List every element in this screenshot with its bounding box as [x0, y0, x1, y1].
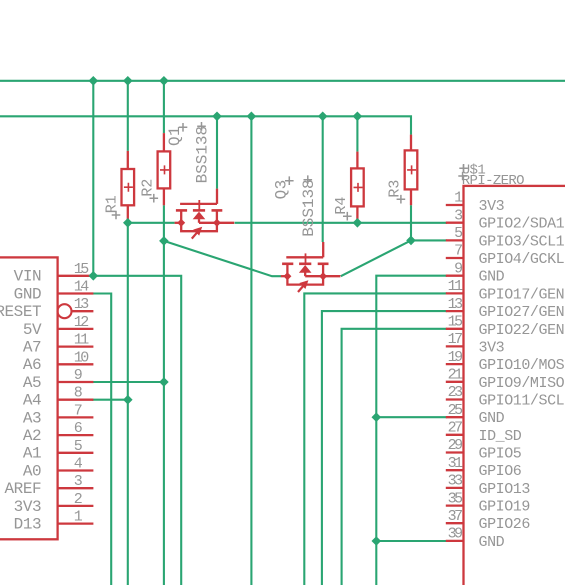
pin lead Arduino 2 — [58, 505, 94, 507]
svg-text:R4: R4 — [333, 197, 350, 215]
pin lead Arduino 8 — [58, 399, 94, 401]
wire SCL1 to RPi pin5 — [411, 239, 447, 241]
svg-text:GND: GND — [14, 285, 42, 303]
pin 13 RESET lead with inversion circle — [58, 304, 72, 318]
svg-text:A5: A5 — [23, 374, 41, 392]
wire 3V3 to R4 top — [356, 116, 358, 151]
svg-text:GPIO2/SDA1: GPIO2/SDA1 — [479, 216, 565, 233]
transistor Q3 BSS138 — [281, 242, 341, 292]
junction 3V3/Q1 gate — [212, 112, 222, 122]
junction VIN/R1 — [123, 76, 133, 86]
svg-text:Q1: Q1 — [166, 126, 184, 146]
wire GND from RPi pin9 — [376, 276, 447, 585]
svg-text:A0: A0 — [23, 462, 41, 480]
svg-text:GPIO6: GPIO6 — [479, 463, 522, 480]
svg-text:D13: D13 — [14, 516, 42, 534]
junction VIN/pin15 col — [89, 76, 99, 86]
junction GND pin39 — [372, 536, 382, 546]
origin cross Q1 label — [179, 123, 188, 132]
wire GND to RPi pin39 — [376, 540, 447, 542]
svg-text:RPI-ZERO: RPI-ZERO — [462, 173, 524, 189]
wire GND from pin14 — [92, 294, 111, 585]
svg-text:3V3: 3V3 — [14, 498, 42, 516]
pin lead Arduino 7 — [58, 416, 94, 418]
svg-text:3V3: 3V3 — [479, 339, 505, 356]
svg-text:GND: GND — [479, 534, 505, 551]
svg-text:BSS138: BSS138 — [300, 179, 318, 236]
pin lead RPi 27 — [446, 434, 464, 436]
pin lead RPi 33 — [446, 487, 464, 489]
pin lead RPi 15 — [446, 328, 464, 330]
svg-text:GPIO5: GPIO5 — [479, 446, 522, 463]
pin lead RPi 29 — [446, 451, 464, 453]
resistor R1 — [127, 151, 129, 169]
wire VIN to R2 top — [163, 81, 165, 133]
junction 3V3/Q3 gate — [318, 112, 328, 122]
junction A5 col — [159, 377, 169, 387]
svg-text:A2: A2 — [23, 427, 41, 445]
svg-text:GPIO17/GEN0: GPIO17/GEN0 — [479, 286, 565, 303]
resistor R3 — [410, 135, 412, 151]
pin lead RPi 35 — [446, 504, 464, 506]
svg-text:A6: A6 — [23, 356, 41, 374]
svg-text:GPIO3/SCL1: GPIO3/SCL1 — [479, 233, 565, 250]
pin lead Arduino 1 — [58, 522, 94, 524]
junction 3V3 branch — [247, 112, 257, 122]
svg-text:R2: R2 — [140, 179, 157, 197]
wire VIN to pin15 column — [92, 81, 94, 276]
wire GND to RPi pin25 — [376, 416, 447, 418]
pin lead Arduino 14 — [58, 292, 94, 294]
origin cross U$1 — [459, 164, 468, 173]
svg-text:GPIO22/GEN3: GPIO22/GEN3 — [479, 322, 565, 339]
pin lead Arduino 4 — [58, 469, 94, 471]
wire GPIO17 from RPi pin11 — [304, 293, 447, 585]
pin lead RPi 9 — [446, 275, 464, 277]
wire SDA left segment — [128, 222, 175, 224]
pin lead RPi 31 — [446, 469, 464, 471]
pin lead Arduino 11 — [58, 345, 94, 347]
origin cross Q3 label — [285, 176, 294, 185]
wire diagonal Q3 drain to SCL1 node — [341, 240, 411, 276]
origin cross BSS138 label — [197, 122, 206, 131]
pin lead RPi 17 — [446, 345, 464, 347]
pin lead RPi 11 — [446, 292, 464, 294]
wire 3V3 to Q1 gate — [216, 116, 218, 188]
pin lead Arduino 10 — [58, 363, 94, 365]
transistor Q1 BSS138 — [175, 189, 235, 239]
junction R3 bottom SCL1 — [406, 236, 416, 246]
resistor R4 — [356, 152, 358, 169]
wire A4 from pin8 — [92, 399, 128, 401]
svg-text:A4: A4 — [23, 392, 41, 410]
origin cross R3 — [397, 195, 406, 204]
svg-text:GND: GND — [479, 269, 505, 286]
svg-text:12: 12 — [74, 314, 89, 331]
svg-text:29: 29 — [448, 437, 463, 454]
svg-text:Q3: Q3 — [272, 179, 290, 199]
svg-text:27: 27 — [448, 420, 463, 437]
svg-text:GPIO13: GPIO13 — [479, 481, 531, 498]
wire A5 from pin9 — [92, 381, 164, 383]
wire SDA right segment to RPi pin3 — [235, 222, 447, 224]
svg-text:39: 39 — [448, 526, 463, 543]
svg-text:AREF: AREF — [5, 480, 42, 498]
pin lead RPi 7 — [446, 257, 464, 259]
wire 3V3 rail — [0, 116, 411, 134]
junction A4 col — [123, 395, 133, 405]
pin lead RPi 39 — [446, 540, 464, 542]
svg-text:R3: R3 — [387, 180, 404, 198]
svg-text:GND: GND — [479, 410, 505, 427]
junction R2 bottom SCL — [159, 236, 169, 246]
pin lead Arduino 15 — [58, 275, 94, 277]
wire SDA column down from R1 — [127, 223, 129, 585]
svg-text:GPIO19: GPIO19 — [479, 499, 530, 516]
wire 3V3 to Q3 gate — [322, 116, 324, 242]
pin lead RPi 3 — [446, 222, 464, 224]
svg-text:5V: 5V — [23, 321, 42, 339]
svg-text:GPIO10/MOSI: GPIO10/MOSI — [479, 357, 565, 374]
svg-text:GPIO4/GCKL: GPIO4/GCKL — [479, 251, 565, 268]
pin lead Arduino 3 — [58, 487, 94, 489]
svg-text:GPIO11/SCLK: GPIO11/SCLK — [479, 393, 565, 410]
connector JP Arduino box — [0, 257, 58, 539]
svg-text:A3: A3 — [23, 409, 41, 427]
svg-text:BSS138: BSS138 — [194, 126, 212, 183]
origin cross R4 — [343, 212, 352, 221]
wire GPIO27 from RPi pin13 — [322, 311, 447, 585]
origin cross R1 — [112, 211, 121, 220]
pin lead RPi 19 — [446, 363, 464, 365]
wire diagonal SCL to Q3 source — [164, 241, 281, 276]
svg-text:17: 17 — [448, 331, 463, 348]
IC U$1 RPI-ZERO box — [464, 186, 565, 585]
svg-text:ID_SD: ID_SD — [479, 428, 522, 445]
junction GND pin25 — [372, 412, 382, 422]
wire VIN from pin15 — [92, 276, 181, 585]
pin lead RPi 25 — [446, 416, 464, 418]
pin lead RPi 5 — [446, 239, 464, 241]
svg-text:3V3: 3V3 — [479, 198, 505, 215]
wire VIN to R1 top — [127, 81, 129, 151]
svg-text:A7: A7 — [23, 339, 41, 357]
junction R4 bottom — [353, 218, 363, 228]
origin cross BSS138 label — [304, 175, 313, 184]
pin lead RPi 21 — [446, 381, 464, 383]
svg-text:GPIO26: GPIO26 — [479, 516, 531, 533]
resistor R2 — [163, 133, 165, 151]
pin lead RPi 13 — [446, 310, 464, 312]
svg-text:R1: R1 — [104, 195, 121, 213]
svg-text:37: 37 — [448, 508, 463, 525]
origin cross RPI-ZERO — [458, 172, 467, 181]
pin lead RPi 37 — [446, 522, 464, 524]
junction 3V3/R4 — [353, 112, 363, 122]
origin cross R2 — [150, 194, 159, 203]
wire SCL column down from R2 — [163, 205, 165, 585]
pin lead Arduino 9 — [58, 381, 94, 383]
svg-text:RESET: RESET — [0, 303, 41, 321]
svg-text:GPIO27/GEN2: GPIO27/GEN2 — [479, 304, 565, 321]
junction VIN/R2 — [159, 76, 169, 86]
wire GPIO22 from RPi pin15 — [342, 329, 447, 585]
pin lead Arduino 5 — [58, 452, 94, 454]
wire 3V3 branch down — [250, 116, 252, 585]
svg-text:A1: A1 — [23, 445, 41, 463]
pin lead RPi 1 — [446, 204, 464, 206]
svg-text:GPIO9/MISO: GPIO9/MISO — [479, 375, 565, 392]
wire R3 bottom to SCL1 node — [410, 205, 412, 240]
pin lead Arduino 12 — [58, 328, 94, 330]
pin lead Arduino 6 — [58, 434, 94, 436]
svg-text:19: 19 — [448, 349, 463, 366]
junction pin15 VIN — [89, 271, 99, 281]
wire VIN rail top — [0, 80, 565, 82]
pin lead RPi 23 — [446, 398, 464, 400]
svg-text:VIN: VIN — [14, 268, 42, 286]
junction R1 bottom SDA — [123, 218, 133, 228]
